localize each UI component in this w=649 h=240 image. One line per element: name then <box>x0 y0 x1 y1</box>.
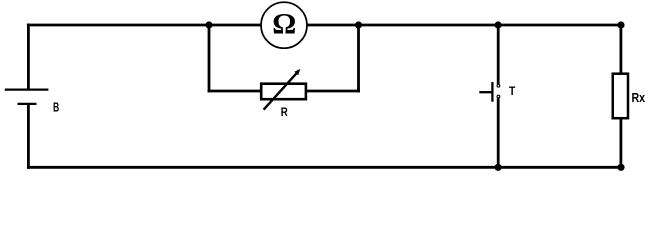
wire top-left segment <box>27 24 209 27</box>
variable resistor R <box>261 69 306 119</box>
junction at switch top <box>495 21 502 28</box>
wire top-middle segment (under ohmmeter) <box>209 24 359 27</box>
wire Rx upper <box>620 25 623 74</box>
junction at parallel-right top <box>355 21 362 28</box>
wire top-right segment <box>359 24 499 27</box>
svg-text:B: B <box>53 100 59 115</box>
svg-text:R: R <box>281 105 288 119</box>
wire Rx lower <box>620 118 623 167</box>
resistor Rx <box>613 74 646 119</box>
junction at switch bottom <box>495 164 502 171</box>
junction at top-right corner <box>617 21 624 28</box>
switch T lower wire <box>497 98 500 167</box>
battery B <box>5 90 59 115</box>
wire left lower (battery to bottom corner) <box>27 105 30 169</box>
switch T upper wire <box>497 25 500 84</box>
ohmmeter <box>261 2 307 48</box>
junction at bottom-right corner <box>617 164 624 171</box>
wire branch-left vertical <box>208 25 211 92</box>
wire top-far-right segment <box>498 24 622 27</box>
wire branch-right horizontal <box>305 90 360 93</box>
pushbutton switch T <box>479 82 516 102</box>
wire branch-right vertical <box>357 25 360 92</box>
junction at parallel-left top <box>205 21 212 28</box>
svg-text:T: T <box>509 84 516 98</box>
svg-text:Rx: Rx <box>632 90 646 105</box>
wire bottom segment <box>27 166 623 169</box>
svg-text:Ω: Ω <box>272 8 296 41</box>
wire left upper (top corner to battery) <box>27 24 30 89</box>
wire branch-left horizontal <box>208 90 263 93</box>
